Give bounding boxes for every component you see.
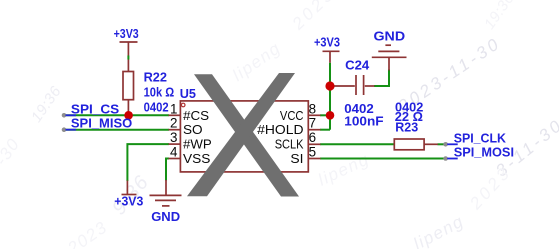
svg-text:#WP: #WP [183,137,212,152]
svg-text:SO: SO [183,122,203,137]
svg-text:SPI_CLK: SPI_CLK [454,131,507,146]
svg-text:U5: U5 [180,86,196,101]
svg-text:SPI_MISO: SPI_MISO [71,116,132,131]
svg-text:6: 6 [309,130,316,145]
svg-text:19:36: 19:36 [481,0,518,33]
svg-text:#HOLD: #HOLD [257,122,303,137]
svg-text:+3V3: +3V3 [114,193,143,208]
svg-text:+3V3: +3V3 [314,35,340,50]
svg-text:VCC: VCC [280,108,304,123]
svg-text:10k Ω: 10k Ω [144,84,175,99]
svg-text:8: 8 [309,101,316,116]
svg-text:#CS: #CS [183,108,209,123]
svg-text:GND: GND [151,209,180,224]
svg-text:19:36: 19:36 [28,83,65,126]
svg-text:5: 5 [309,145,316,160]
svg-text:+3V3: +3V3 [114,26,139,41]
svg-text:1: 1 [170,101,177,116]
svg-text:7: 7 [309,116,316,131]
svg-text:100nF: 100nF [344,114,383,129]
svg-text:4: 4 [170,145,178,160]
svg-text:R22: R22 [144,70,167,85]
svg-text:GND: GND [374,29,406,44]
svg-text:lipeng: lipeng [315,149,372,189]
svg-text:VSS: VSS [183,151,211,166]
svg-text:SPI_CS: SPI_CS [71,101,119,116]
svg-text:-30: -30 [0,134,24,169]
svg-text:SI: SI [290,151,303,166]
svg-text:R23: R23 [395,119,418,134]
svg-text:SCLK: SCLK [275,137,304,152]
svg-text:SPI_MOSI: SPI_MOSI [454,145,514,160]
svg-text:3: 3 [170,130,177,145]
svg-text:lipeng: lipeng [410,211,467,249]
svg-text:2: 2 [170,116,177,131]
svg-text:2023: 2023 [288,0,339,34]
svg-text:2023: 2023 [63,217,111,249]
svg-text:2023: 2023 [465,162,515,213]
svg-text:C24: C24 [345,57,370,72]
svg-text:0402: 0402 [144,100,169,115]
